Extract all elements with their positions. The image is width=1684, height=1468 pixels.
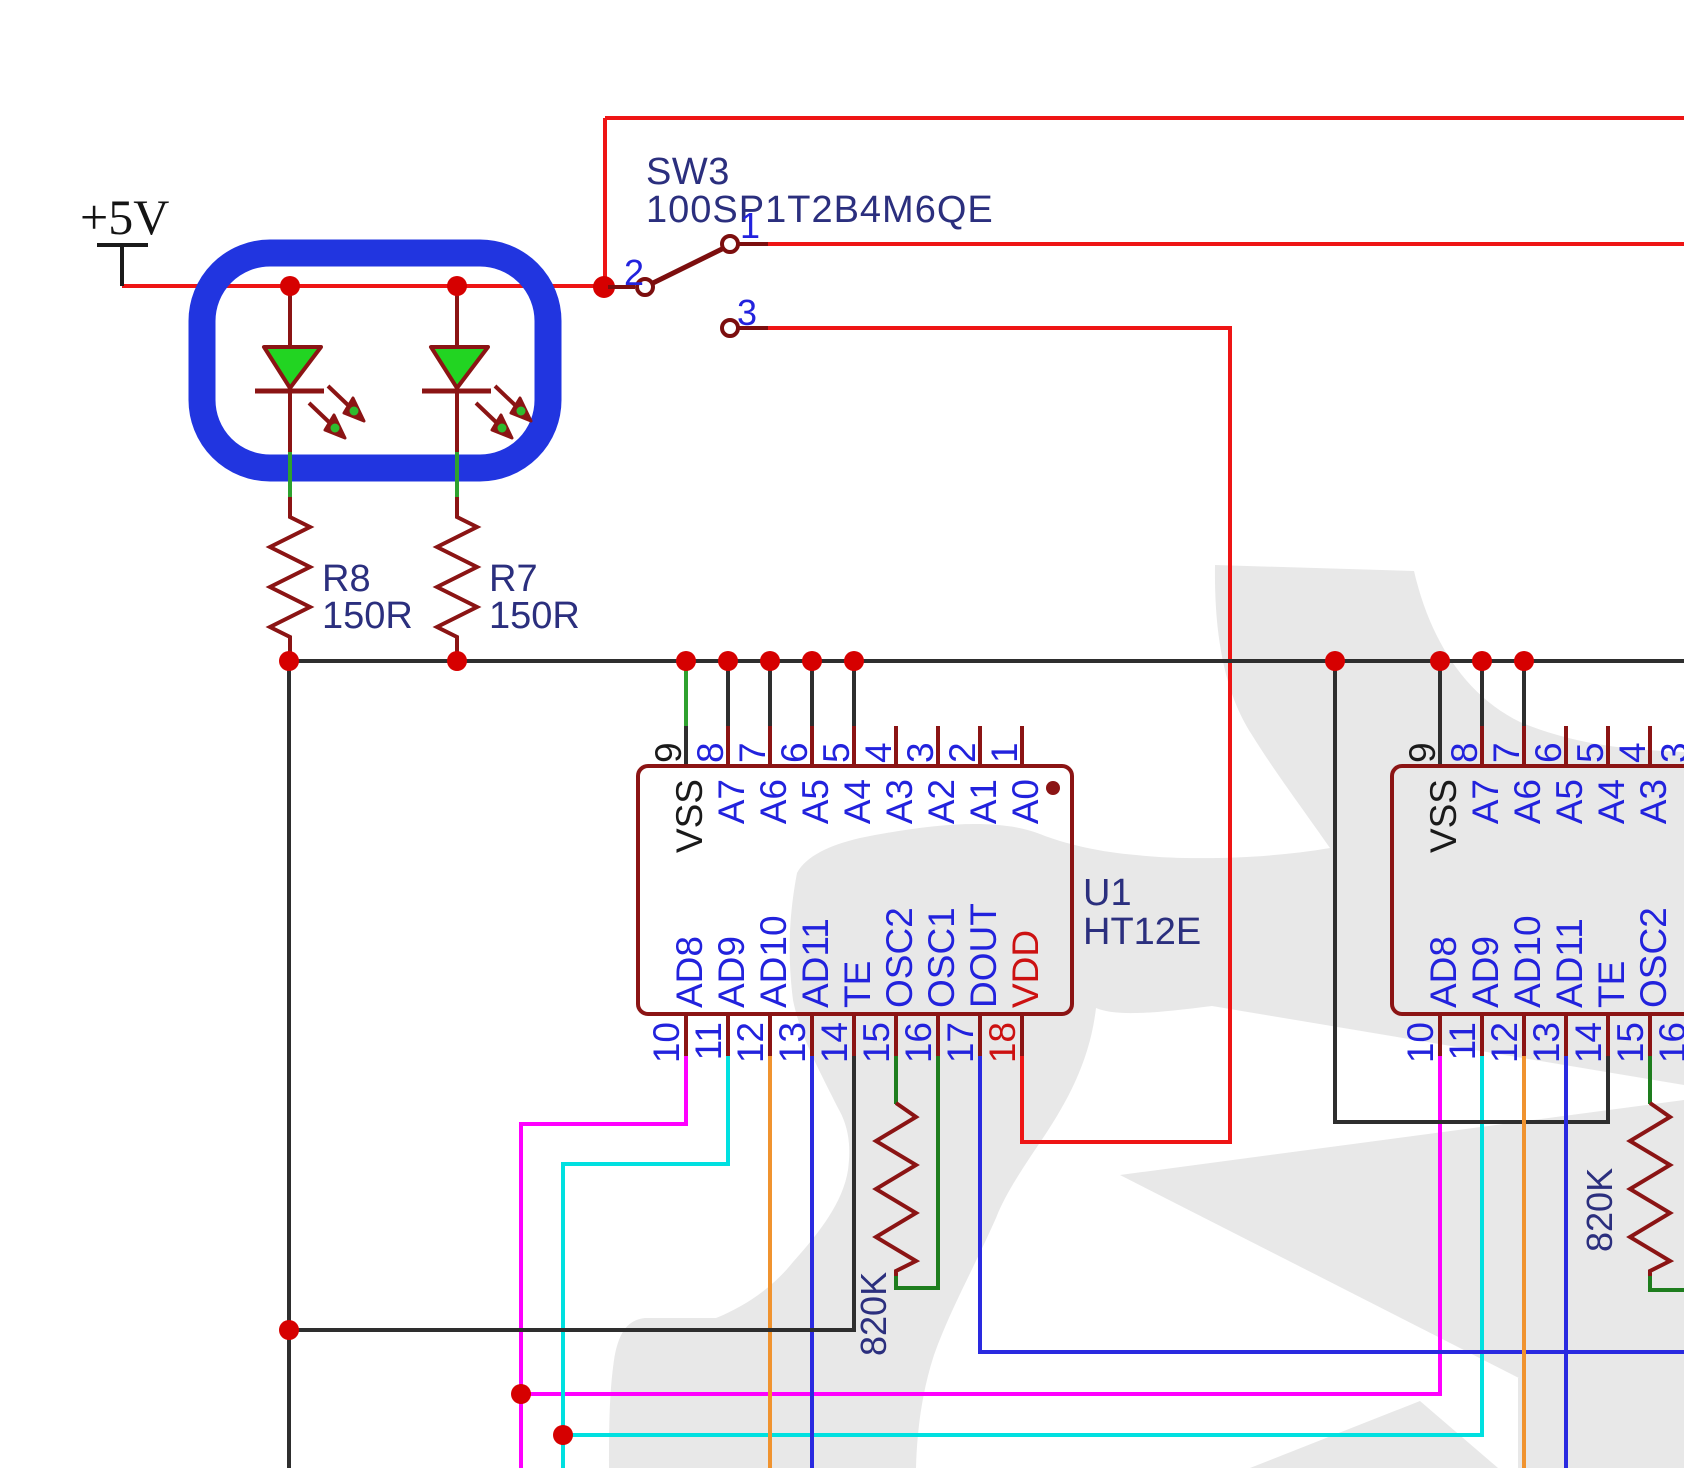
resistor R7 xyxy=(437,497,477,661)
U2 top pin stubs xyxy=(1482,726,1684,766)
svg-text:11: 11 xyxy=(1442,1022,1483,1060)
wire black U1 pin14 TE xyxy=(289,1056,854,1330)
svg-text:11: 11 xyxy=(688,1022,729,1060)
svg-text:820K: 820K xyxy=(853,1272,894,1356)
svg-text:OSC1: OSC1 xyxy=(921,907,962,1008)
node U2 pin7 xyxy=(1514,651,1534,671)
wire green LED left cathode net xyxy=(288,452,292,498)
svg-text:18: 18 xyxy=(982,1022,1023,1063)
svg-text:A1: A1 xyxy=(963,779,1004,824)
U2 bottom pin numbers xyxy=(1400,1022,1684,1063)
node U1 pin8 xyxy=(718,651,738,671)
svg-text:12: 12 xyxy=(730,1022,771,1063)
SW3 pin 3 stub xyxy=(739,326,768,330)
node dot magenta net xyxy=(511,1384,531,1404)
svg-text:A2: A2 xyxy=(921,779,962,824)
svg-text:16: 16 xyxy=(1652,1022,1684,1063)
svg-text:A4: A4 xyxy=(1591,779,1632,824)
LED left cathode stub xyxy=(288,391,292,453)
node U1 pin6 xyxy=(802,651,822,671)
svg-text:A0: A0 xyxy=(1005,779,1046,824)
LED right triangle xyxy=(431,347,488,388)
svg-text:3: 3 xyxy=(900,742,941,763)
resistor R8 xyxy=(270,497,310,661)
svg-text:820K: 820K xyxy=(1579,1168,1620,1252)
svg-text:100SP1T2B4M6QE: 100SP1T2B4M6QE xyxy=(646,189,994,231)
node dot LED right anode xyxy=(447,276,467,296)
SW3 pin 3 contact circle xyxy=(722,320,738,336)
LED right light arrows xyxy=(476,386,531,438)
svg-text:150R: 150R xyxy=(489,595,580,637)
svg-text:7: 7 xyxy=(732,742,773,763)
node U1 pin9 xyxy=(676,651,696,671)
wire black U2 pin9 xyxy=(1438,661,1442,766)
svg-text:R8: R8 xyxy=(322,558,371,600)
SW3 pin 2 stub xyxy=(608,285,635,289)
wire red vertical from node to top rail xyxy=(603,118,607,287)
svg-text:TE: TE xyxy=(1591,961,1632,1008)
wire blue U1 pin17 DOUT xyxy=(980,1056,1684,1352)
SW3 lever arm xyxy=(653,249,722,283)
wire blue U2 pin13 xyxy=(1564,1056,1568,1468)
svg-text:A4: A4 xyxy=(837,779,878,824)
node U2 TE branch xyxy=(1325,651,1345,671)
wire red from SW3 pin 3 to U1 VDD xyxy=(768,328,1230,1142)
svg-text:6: 6 xyxy=(774,742,815,763)
LED right cathode bar xyxy=(422,389,491,394)
U1 bottom pin stubs xyxy=(686,1014,1022,1056)
LED right: anode wire xyxy=(455,286,459,349)
IC U2 HT12E body (clipped) xyxy=(1392,766,1684,1014)
node dot TE net xyxy=(279,1320,299,1340)
wire green U1 pin15 OSC2 xyxy=(894,1056,898,1104)
svg-text:13: 13 xyxy=(1526,1022,1567,1063)
svg-text:AD9: AD9 xyxy=(1465,936,1506,1008)
node dot LED left anode xyxy=(280,276,300,296)
svg-text:AD9: AD9 xyxy=(711,936,752,1008)
blue highlight ring annotation xyxy=(202,253,548,468)
wire green U1 OSC1 link xyxy=(896,1056,938,1288)
LED right cathode stub xyxy=(455,391,459,453)
U1 pin1 orientation dot A0 xyxy=(1046,781,1060,795)
svg-text:17: 17 xyxy=(940,1022,981,1063)
U1 top pin names xyxy=(669,779,1046,853)
op IC U1 HT12E body xyxy=(638,766,1072,1014)
svg-text:A3: A3 xyxy=(1633,779,1674,824)
U1 bottom pin names xyxy=(669,903,1046,1008)
svg-text:A7: A7 xyxy=(711,779,752,824)
svg-text:14: 14 xyxy=(1568,1022,1609,1063)
LED left triangle xyxy=(264,347,321,388)
svg-text:8: 8 xyxy=(690,742,731,763)
svg-text:AD8: AD8 xyxy=(1423,936,1464,1008)
svg-text:AD8: AD8 xyxy=(669,936,710,1008)
svg-text:9: 9 xyxy=(1402,742,1443,763)
wire magenta horizontal to U2 pin10 xyxy=(521,1056,1440,1394)
svg-text:A5: A5 xyxy=(1549,779,1590,824)
svg-text:2: 2 xyxy=(624,252,644,293)
svg-text:8: 8 xyxy=(1444,742,1485,763)
svg-text:150R: 150R xyxy=(322,595,413,637)
node R7 bottom xyxy=(447,651,467,671)
SW3 pin 1 stub xyxy=(739,242,768,246)
wire +5V to LEDs red horizontal xyxy=(122,284,604,288)
resistor 820K U1 xyxy=(876,1103,916,1278)
node R8 bottom xyxy=(279,651,299,671)
LED left cathode bar xyxy=(255,389,324,394)
wire red from SW3 pin 1 to right edge xyxy=(768,242,1684,246)
wire black U1 pin8 xyxy=(726,661,730,727)
wire black U2 pin8 xyxy=(1480,661,1484,727)
switch SW3 xyxy=(608,236,768,336)
U1 top pin numbers xyxy=(648,742,1025,763)
svg-text:DOUT: DOUT xyxy=(963,903,1004,1008)
LED left light arrows xyxy=(309,386,364,438)
svg-text:A7: A7 xyxy=(1465,779,1506,824)
svg-text:3: 3 xyxy=(1654,742,1684,763)
svg-text:10: 10 xyxy=(646,1022,687,1063)
U2 bottom pin names xyxy=(1423,907,1674,1008)
+5V power symbol xyxy=(97,245,148,286)
wire black U1 pin7 xyxy=(768,661,772,727)
svg-text:AD11: AD11 xyxy=(795,918,836,1008)
svg-text:VDD: VDD xyxy=(1005,930,1046,1008)
svg-text:AD10: AD10 xyxy=(1507,915,1548,1008)
U1 top pin stubs xyxy=(728,726,1022,766)
svg-text:2: 2 xyxy=(942,742,983,763)
svg-text:OSC2: OSC2 xyxy=(1633,907,1674,1008)
U2 bottom pin stubs xyxy=(1440,1014,1684,1056)
U1 bottom pin numbers xyxy=(646,1022,1023,1063)
wire black U2 pin7 xyxy=(1522,661,1526,727)
svg-text:AD11: AD11 xyxy=(1549,918,1590,1008)
node dot cyan net xyxy=(553,1425,573,1445)
wire blue U1 pin13 AD11 xyxy=(810,1056,814,1468)
wire green U2 OSC1 link xyxy=(1650,1276,1684,1290)
svg-text:U1: U1 xyxy=(1083,872,1132,914)
svg-text:13: 13 xyxy=(772,1022,813,1063)
wire orange U1 pin12 AD10 xyxy=(768,1056,772,1468)
ground bus horizontal wire xyxy=(289,659,1684,663)
svg-text:3: 3 xyxy=(737,292,757,333)
svg-text:HT12E: HT12E xyxy=(1083,911,1201,953)
svg-text:15: 15 xyxy=(856,1022,897,1063)
wire black U1 pin5 xyxy=(852,661,856,727)
svg-text:9: 9 xyxy=(648,742,689,763)
wire black U1 pin9 lower xyxy=(684,726,688,766)
node junction at switch common xyxy=(593,276,615,298)
svg-text:7: 7 xyxy=(1486,742,1527,763)
svg-text:1: 1 xyxy=(984,742,1025,763)
svg-text:A3: A3 xyxy=(879,779,920,824)
svg-text:VSS: VSS xyxy=(1423,779,1464,853)
svg-text:10: 10 xyxy=(1400,1022,1441,1063)
svg-text:4: 4 xyxy=(858,742,899,763)
svg-text:16: 16 xyxy=(898,1022,939,1063)
wire red top rail xyxy=(605,116,1684,120)
wire magenta U1 pin10 AD8 xyxy=(521,1056,686,1468)
SW3 pin 2 contact circle xyxy=(637,279,653,295)
U2 top pin names xyxy=(1423,779,1674,853)
node U2 pin8 xyxy=(1472,651,1492,671)
svg-text:12: 12 xyxy=(1484,1022,1525,1063)
svg-text:14: 14 xyxy=(814,1022,855,1063)
svg-text:A6: A6 xyxy=(753,779,794,824)
resistor 820K U2 xyxy=(1630,1103,1670,1278)
wire black U1 pin6 xyxy=(810,661,814,727)
junction dots on bus xyxy=(279,651,1534,671)
svg-text:1: 1 xyxy=(740,205,760,246)
svg-text:A6: A6 xyxy=(1507,779,1548,824)
svg-text:+5V: +5V xyxy=(80,189,169,245)
wire green LED right cathode net xyxy=(455,452,459,498)
wire orange U2 pin12 xyxy=(1522,1056,1526,1468)
LED D? left: anode wire xyxy=(288,286,292,349)
svg-text:R7: R7 xyxy=(489,558,538,600)
watermark logo gray shapes xyxy=(609,565,1684,1468)
svg-text:TE: TE xyxy=(837,961,878,1008)
svg-text:SW3: SW3 xyxy=(646,151,730,193)
svg-text:4: 4 xyxy=(1612,742,1653,763)
node U1 pin7 xyxy=(760,651,780,671)
node U1 pin5 xyxy=(844,651,864,671)
wire green U1 pin9 VSS xyxy=(684,661,688,727)
wire green U2 pin15 OSC2 xyxy=(1648,1056,1652,1104)
wire red U1 pin18 VDD lower xyxy=(1020,1056,1024,1142)
svg-text:15: 15 xyxy=(1610,1022,1651,1063)
SW3 pin 1 contact circle xyxy=(722,236,738,252)
wire cyan horizontal to U2 pin11 xyxy=(563,1056,1482,1435)
wire black U2 pin14 TE from bus xyxy=(1335,661,1608,1122)
svg-text:5: 5 xyxy=(1570,742,1611,763)
svg-text:A5: A5 xyxy=(795,779,836,824)
node U2 pin9 xyxy=(1430,651,1450,671)
bus vertical black wire left xyxy=(287,661,291,1468)
wire cyan U1 pin11 AD9 xyxy=(563,1056,728,1468)
svg-text:AD10: AD10 xyxy=(753,915,794,1008)
svg-text:VSS: VSS xyxy=(669,779,710,853)
svg-text:OSC2: OSC2 xyxy=(879,907,920,1008)
U2 top pin numbers xyxy=(1402,742,1684,763)
svg-text:6: 6 xyxy=(1528,742,1569,763)
svg-text:5: 5 xyxy=(816,742,857,763)
